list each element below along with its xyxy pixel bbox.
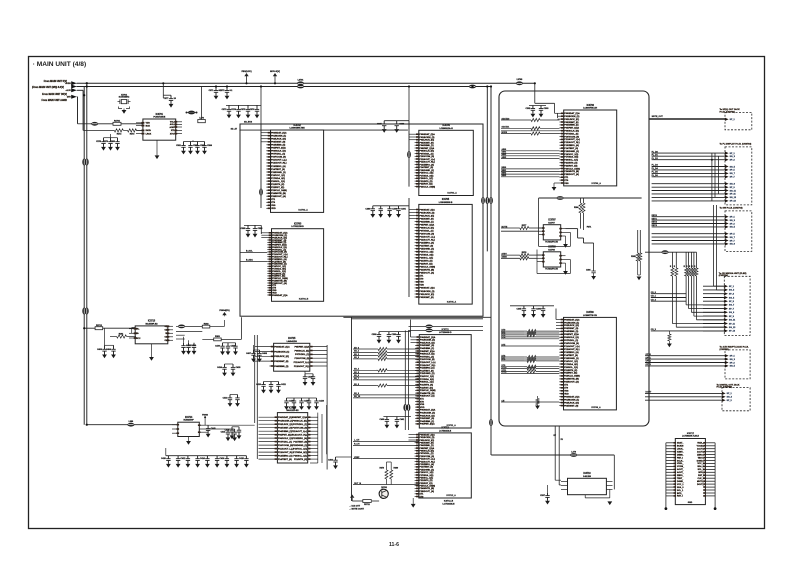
svg-text:P10/VCOM_(0): P10/VCOM_(0): [419, 456, 434, 458]
resistor R3701 box: [113, 122, 121, 125]
svg-text:RST_I: RST_I: [677, 496, 683, 498]
svg-text:P02/LRCK_I(1): P02/LRCK_I(1): [271, 139, 286, 141]
wire top bus VDD line: [77, 82, 535, 84]
svg-text:XSMT_: XSMT_: [677, 452, 685, 454]
power flag F3905: [350, 495, 354, 498]
connector CN3705: [725, 350, 750, 379]
ground under U3701: [156, 140, 158, 155]
wire middle block outline: [240, 124, 483, 316]
svg-text:MUTE: MUTE: [502, 226, 508, 228]
svg-text:F3906: F3906: [202, 415, 209, 417]
ferrite L101 on left rail: [82, 159, 86, 166]
svg-text:P.C.B. (CN3701): P.C.B. (CN3701): [720, 111, 736, 113]
capacitor C3724: [532, 106, 534, 109]
svg-text:SD_6: SD_6: [354, 375, 360, 377]
op-amp U3702 DAC: [271, 130, 324, 212]
svg-text:SD_10: SD_10: [354, 396, 361, 398]
svg-text:P24/MUTE_(B): P24/MUTE_(B): [564, 378, 579, 381]
svg-text:LC89091JA-H: LC89091JA-H: [439, 127, 453, 130]
svg-text:P04/DEM0_(1): P04/DEM0_(1): [271, 144, 285, 147]
op-amp U3701: [143, 119, 176, 140]
svg-text:DOUT_: DOUT_: [697, 484, 705, 486]
svg-text:VSS: VSS: [564, 391, 569, 393]
wire hlines ferrite pair: [409, 325, 484, 327]
svg-text:P15/DGND_(1): P15/DGND_(1): [420, 373, 435, 375]
svg-text:OPT2: OPT2: [646, 361, 652, 363]
svg-text:P03/XSMT_(0): P03/XSMT_(0): [419, 218, 433, 220]
svg-text:P01/BCKIN_(1): P01/BCKIN_(1): [419, 437, 434, 439]
wire to CN3701: [649, 118, 725, 120]
svg-text:+3.3V: +3.3V: [66, 90, 72, 92]
resistor R3705: [531, 127, 540, 130]
svg-text:IC3712_A: IC3712_A: [446, 494, 456, 497]
svg-text:P10/VCOM_(0): P10/VCOM_(0): [564, 136, 579, 138]
wire top bus second line: [77, 86, 492, 88]
svg-text:P24/MUTE_(B): P24/MUTE_(B): [419, 269, 434, 272]
svg-text:P07/VDDL_(1): P07/VDDL_(1): [278, 441, 292, 443]
svg-text:SP_13: SP_13: [730, 201, 737, 203]
op-amp U3713: [135, 326, 168, 344]
svg-text:P03/XSMT_(0): P03/XSMT_(0): [419, 443, 433, 445]
svg-text:P03/XSMT_(0): P03/XSMT_(0): [278, 428, 292, 430]
svg-text:P14/TEST_(0): P14/TEST_(0): [419, 245, 433, 248]
capacitor C3710: [117, 138, 119, 142]
capacitor C3720 rail: [373, 205, 409, 207]
power flag F3702: [274, 76, 276, 83]
svg-text:PCM1748KE: PCM1748KE: [153, 116, 166, 119]
ferrite L3705 cluster: [188, 111, 195, 115]
capacitor C3724 rail: [529, 105, 546, 107]
capacitor bank C3744 row: [167, 456, 169, 459]
svg-text:P01/BCKIN_(1): P01/BCKIN_(1): [564, 400, 579, 402]
wire row4 bend: [76, 96, 79, 98]
svg-text:P01/BCKIN_(1): P01/BCKIN_(1): [420, 340, 435, 342]
svg-text:P20/SCL_1(1): P20/SCL_1(1): [564, 367, 578, 369]
svg-text:INT0_: INT0_: [698, 472, 704, 474]
svg-text:P25/DOUT_(A): P25/DOUT_(A): [564, 381, 579, 384]
svg-text:P02/LRCK_I(1): P02/LRCK_I(1): [419, 294, 434, 296]
capacitor C3725: [540, 106, 542, 109]
capacitor C3727 rail: [510, 305, 554, 307]
wire drop x261: [260, 87, 262, 125]
wire rail U3709: [555, 309, 557, 320]
svg-text:P02/LRCK_I(1): P02/LRCK_I(1): [419, 440, 434, 442]
svg-text:IC3702: IC3702: [293, 125, 301, 127]
svg-text:SG_7: SG_7: [730, 237, 736, 239]
svg-text:P00/SDAT_(1)A: P00/SDAT_(1)A: [271, 132, 287, 135]
svg-text:R3711: R3711: [364, 504, 371, 506]
svg-text:FL_D0: FL_D0: [652, 151, 659, 153]
svg-text:IC3707: IC3707: [548, 220, 556, 222]
svg-text:P22/RST_I(1): P22/RST_I(1): [271, 187, 284, 189]
ground under U3706: [553, 183, 555, 187]
node junction CN3702: [711, 159, 713, 161]
svg-text:R_CH: R_CH: [354, 444, 360, 446]
svg-text:SP_7: SP_7: [730, 177, 736, 179]
node junction dot on bus: [86, 82, 88, 84]
svg-text:OPT0: OPT0: [646, 354, 652, 356]
svg-text:P07/VDDL_(1): P07/VDDL_(1): [419, 453, 433, 455]
capacitor C3718: [383, 121, 385, 124]
svg-text:VCC: VCC: [136, 338, 141, 340]
svg-text:LC89075W-XH: LC89075W-XH: [583, 108, 597, 110]
resistor bank RB3701: [671, 268, 674, 276]
svg-text:P25/DOUT_(A): P25/DOUT_(A): [271, 195, 286, 198]
svg-text:SP_5: SP_5: [729, 301, 735, 303]
svg-text:16.9344MHz: 16.9344MHz: [119, 96, 130, 99]
svg-text:SG_5: SG_5: [730, 366, 736, 368]
svg-text:LRCK: LRCK: [146, 133, 152, 135]
svg-text:P03/XSMT_(0): P03/XSMT_(0): [420, 418, 434, 420]
svg-text:IC3705_A: IC3705_A: [447, 300, 457, 303]
svg-text:P21/INT0_(X): P21/INT0_(X): [420, 385, 433, 387]
capacitor C3712: [190, 142, 192, 146]
svg-text:P14/TEST_(0): P14/TEST_(0): [420, 369, 434, 372]
svg-text:SP_7: SP_7: [729, 308, 735, 310]
svg-text:BA3121F-E2: BA3121F-E2: [287, 409, 300, 412]
wire B_SDA stub: [241, 260, 268, 262]
svg-text:VDDL_: VDDL_: [677, 463, 684, 465]
transistor Q3701: [379, 489, 388, 498]
svg-text:P05/FMT_I(1)A: P05/FMT_I(1)A: [564, 333, 579, 336]
svg-text:LC893035W-B: LC893035W-B: [439, 202, 453, 204]
svg-text:DGND_: DGND_: [697, 460, 705, 462]
svg-text:IC3713: IC3713: [148, 321, 156, 323]
svg-text:P25/DOUT_(A): P25/DOUT_(A): [564, 173, 579, 176]
ferrite L3721 on U3704 rail: [407, 151, 411, 158]
svg-text:IC3703: IC3703: [294, 224, 302, 226]
inductor L3706 box: [198, 120, 206, 123]
svg-text:SG_3: SG_3: [730, 359, 736, 361]
svg-text:LC89058W-TBE: LC89058W-TBE: [290, 128, 306, 130]
ferrite L3712: [570, 453, 577, 457]
svg-text:SD_8: SD_8: [354, 384, 360, 386]
svg-text:P01/BCKIN_(1): P01/BCKIN_(1): [564, 322, 579, 324]
wire hline y455: [491, 454, 614, 456]
svg-text:SG_9: SG_9: [730, 244, 736, 246]
svg-text:AOUT_: AOUT_: [697, 451, 705, 454]
resistor R3712 box: [95, 327, 103, 330]
svg-text:CLK_1: CLK_1: [697, 478, 704, 480]
svg-text:From MAIN UNIT AGND: From MAIN UNIT AGND: [41, 99, 67, 102]
svg-text:SD_0: SD_0: [354, 347, 360, 349]
resistor R3713: [117, 335, 127, 338]
border frame: [29, 57, 765, 529]
svg-text:P16/VCC_1(1): P16/VCC_1(1): [564, 154, 578, 156]
wire left rows U3712: [353, 440, 419, 442]
wire input rows group3: [501, 150, 560, 152]
svg-text:KEY1: KEY1: [652, 218, 658, 220]
op-amp U3710 regulator: [568, 478, 607, 494]
svg-text:P00/SDAT_(1)A: P00/SDAT_(1)A: [419, 208, 435, 211]
svg-text:IC3708: IC3708: [548, 247, 556, 249]
svg-text:P17/SDA_0(1): P17/SDA_0(1): [271, 177, 285, 180]
svg-text:P05/FMT_I(1)A: P05/FMT_I(1)A: [564, 127, 579, 130]
svg-text:OPT1: OPT1: [646, 357, 652, 359]
svg-text:P02/LRCK_I(1): P02/LRCK_I(1): [564, 119, 579, 121]
svg-text:P11/AOUT_L(+): P11/AOUT_L(+): [419, 236, 435, 239]
svg-text:P13/ZERO_(A): P13/ZERO_(A): [564, 351, 579, 354]
svg-text:P13/ZERO_(A): P13/ZERO_(A): [278, 454, 293, 457]
op-amp U3709: [564, 317, 617, 410]
wire drop to C3707: [162, 83, 164, 95]
svg-text:P07/VDDL_(1): P07/VDDL_(1): [271, 154, 285, 156]
capacitor C3701: [215, 87, 217, 91]
resistor R3715 box: [214, 338, 222, 341]
svg-text:P03/XSMT_(0): P03/XSMT_(0): [564, 122, 578, 124]
svg-text:P02/LRCK_I(1): P02/LRCK_I(1): [419, 140, 434, 142]
ferrite L3708 on rail: [489, 197, 493, 204]
svg-text:SG_3: SG_3: [730, 156, 736, 158]
resistor R3710b vertical: [583, 198, 585, 203]
svg-text:(CN3705): (CN3705): [720, 349, 729, 351]
svg-text:P14/TEST_(0): P14/TEST_(0): [564, 354, 578, 357]
capacitor C3707: [170, 95, 172, 99]
svg-text:SP_3: SP_3: [730, 223, 736, 225]
svg-text:(From MAIN UNIT (3/8)) 3.3(V): (From MAIN UNIT (3/8)) 3.3(V): [32, 86, 64, 89]
svg-text:P10/VCOM_(0): P10/VCOM_(0): [295, 358, 310, 360]
svg-text:LA6541DH: LA6541DH: [287, 340, 298, 343]
svg-text:SP_3: SP_3: [730, 362, 736, 364]
wire staircase from U3707 output: [566, 228, 578, 230]
svg-text:GND: GND: [688, 502, 693, 504]
wire into U3701 with resistors: [83, 129, 114, 131]
svg-text:P20/SCL_1(1): P20/SCL_1(1): [564, 160, 578, 162]
svg-text:B_SCL: B_SCL: [246, 250, 253, 252]
svg-text:P11/AOUT_L(+): P11/AOUT_L(+): [294, 361, 310, 364]
svg-text:SG_11: SG_11: [729, 320, 736, 322]
left vertical rail A: [83, 87, 85, 425]
input arrow row4: [71, 95, 77, 99]
svg-text:P05/FMT_I(1)A: P05/FMT_I(1)A: [292, 416, 307, 419]
svg-text:P10/VCOM_(0): P10/VCOM_(0): [419, 156, 434, 158]
svg-text:P01/BCKIN_(1): P01/BCKIN_(1): [420, 413, 435, 415]
svg-text:IC3704: IC3704: [442, 124, 450, 127]
svg-text:CD_3: CD_3: [651, 329, 657, 331]
wire inputs to U3707: [501, 227, 520, 229]
svg-text:To SW P.C.B. (CN3703): To SW P.C.B. (CN3703): [720, 208, 743, 210]
capacitor C3747 five: [286, 398, 288, 401]
svg-text:INT0_: INT0_: [677, 493, 683, 495]
svg-text:P13/ZERO_(A): P13/ZERO_(A): [271, 165, 286, 168]
svg-text:FL_D1: FL_D1: [652, 154, 659, 156]
svg-text:P10/VCOM_(0): P10/VCOM_(0): [420, 359, 435, 361]
resistor R3708: [520, 254, 529, 257]
svg-text:SCL_1: SCL_1: [698, 469, 705, 471]
ferrite L3714: [426, 325, 433, 329]
svg-text:OPT3: OPT3: [646, 364, 652, 366]
op-amp U3703: [272, 229, 324, 302]
svg-text:SG_9: SG_9: [729, 312, 735, 314]
svg-text:IC3715: IC3715: [288, 338, 296, 340]
svg-text:IC3707: IC3707: [548, 222, 555, 224]
svg-text:RST_I: RST_I: [698, 475, 704, 477]
svg-text:IC3702_A: IC3702_A: [298, 209, 308, 212]
capacitor C3728: [533, 306, 535, 309]
svg-text:P06/SCLK_I(1): P06/SCLK_I(1): [295, 350, 310, 352]
capacitor C3706: [256, 105, 258, 109]
svg-text:VCC_1: VCC_1: [697, 463, 704, 465]
svg-text:P10/VCOM_(0): P10/VCOM_(0): [271, 157, 286, 159]
svg-text:XTO: XTO: [170, 133, 175, 135]
ferrite L3704: [91, 122, 98, 126]
svg-text:SG_11: SG_11: [730, 190, 737, 192]
svg-text:P06/SCLK_I(1): P06/SCLK_I(1): [564, 337, 579, 339]
ferrite L3703 on bus: [516, 81, 523, 85]
svg-text:P15/DGND_(1): P15/DGND_(1): [419, 249, 434, 251]
capacitor C3743: [259, 350, 261, 353]
svg-text:IC3716: IC3716: [289, 407, 297, 409]
power flag F3701: [246, 76, 248, 83]
svg-text:XTI: XTI: [171, 130, 175, 132]
svg-text:R377: R377: [522, 225, 527, 227]
svg-text:P06/SCLK_I(1): P06/SCLK_I(1): [271, 151, 286, 153]
svg-text:P13/ZERO_(A): P13/ZERO_(A): [419, 163, 434, 166]
svg-text:AOUT_: AOUT_: [697, 448, 705, 451]
svg-text:P07/VDDL_(1): P07/VDDL_(1): [420, 356, 434, 358]
svg-text:P06/SCLK_I(1): P06/SCLK_I(1): [419, 227, 434, 229]
svg-text:SG_13: SG_13: [730, 197, 737, 199]
svg-text:P17/SDA_0(1): P17/SDA_0(1): [564, 363, 578, 366]
wire loop around U3708: [536, 250, 538, 274]
ferrite L3723 on rail: [407, 404, 411, 411]
wire stub U3710: [586, 495, 588, 498]
svg-text:VSS: VSS: [420, 404, 425, 406]
svg-text:P12/AOUT_R(-): P12/AOUT_R(-): [564, 348, 580, 351]
svg-text:IC3714: IC3714: [185, 416, 193, 419]
svg-text:P02/LRCK_I(1): P02/LRCK_I(1): [564, 402, 579, 404]
capacitor C3732 rail: [379, 331, 411, 333]
wire rail x491: [490, 87, 492, 456]
capacitor C3745 trio: [263, 382, 265, 385]
svg-text:P05/FMT_I(1)A: P05/FMT_I(1)A: [419, 223, 434, 226]
svg-text:R372: R372: [117, 134, 122, 136]
svg-text:P20/SCL_1(1): P20/SCL_1(1): [420, 382, 434, 384]
svg-text:P23/CLK_16(M): P23/CLK_16(M): [271, 190, 287, 192]
svg-text:P01/BCKIN_(1): P01/BCKIN_(1): [419, 212, 434, 214]
wire long rows CN3704: [651, 293, 686, 295]
svg-text:SG_7: SG_7: [730, 173, 736, 175]
svg-text:VDDL_: VDDL_: [697, 443, 704, 445]
wire rounded block outline: [499, 91, 649, 426]
svg-text:P21/INT0_(X): P21/INT0_(X): [294, 459, 307, 461]
capacitor C3703: [228, 105, 230, 109]
svg-text:P03/XSMT_(0): P03/XSMT_(0): [564, 328, 578, 330]
svg-text:SNS0: SNS0: [502, 257, 508, 259]
svg-text:P22/RST_I(1): P22/RST_I(1): [419, 184, 432, 186]
svg-text:SG_5: SG_5: [730, 227, 736, 229]
svg-text:NJM2100F: NJM2100F: [184, 420, 195, 422]
svg-text:P15/DGND_(1): P15/DGND_(1): [564, 358, 579, 360]
svg-text:CD_0: CD_0: [651, 292, 657, 294]
capacitor C3709: [110, 138, 112, 142]
ground under U3707: [565, 236, 567, 244]
svg-text:LC72366W-D: LC72366W-D: [439, 332, 452, 334]
svg-text:P21/INT0_(X): P21/INT0_(X): [419, 261, 432, 263]
input arrow row2: [71, 85, 77, 89]
svg-text:IC3704_A: IC3704_A: [447, 192, 457, 195]
resistor R3707: [520, 226, 529, 229]
svg-text:From MAIN UNIT D5(V): From MAIN UNIT D5(V): [42, 93, 67, 96]
ground under U3714: [188, 437, 190, 442]
wire hline into U3713: [84, 327, 135, 329]
svg-text:SG_7: SG_7: [729, 305, 735, 307]
svg-text:R373: R373: [130, 134, 135, 136]
svg-text:P.C.B. (CN3706): P.C.B. (CN3706): [717, 387, 733, 389]
svg-text:P02/LRCK_I(1): P02/LRCK_I(1): [564, 325, 579, 327]
svg-text:P07/VDDL_(1): P07/VDDL_(1): [564, 340, 578, 342]
svg-text:P13/ZERO_(A): P13/ZERO_(A): [293, 437, 308, 440]
svg-text:Q3701: Q3701: [381, 487, 388, 489]
svg-text:SP_1: SP_1: [729, 286, 735, 288]
svg-text:SP_11: SP_11: [730, 194, 737, 196]
svg-text:BA4558F-E2: BA4558F-E2: [146, 322, 159, 325]
op-amp U3712: [419, 433, 472, 498]
wire input row SDATA0: [501, 119, 531, 121]
svg-text:SDA_0: SDA_0: [677, 486, 684, 489]
input arrow row3: [71, 88, 77, 92]
svg-text:P10/VCOM_(0): P10/VCOM_(0): [419, 233, 434, 235]
svg-text:P13/ZERO_(A): P13/ZERO_(A): [420, 367, 435, 370]
svg-text:SP_1: SP_1: [727, 393, 733, 395]
svg-text:P23/CLK_16(M): P23/CLK_16(M): [564, 168, 580, 170]
svg-text:P17/SDA_0(1): P17/SDA_0(1): [564, 156, 578, 159]
svg-text:P23/CLK_16(M): P23/CLK_16(M): [420, 390, 436, 392]
ferrite L3717: [127, 423, 134, 427]
svg-text:L3705: L3705: [517, 79, 524, 81]
ground right pair: [637, 277, 642, 281]
capacitor C3713: [197, 142, 199, 146]
svg-text:P10/VCOM_(0): P10/VCOM_(0): [564, 343, 579, 345]
svg-text:TEST_: TEST_: [698, 457, 705, 459]
svg-text:VDD: VDD: [146, 123, 151, 125]
svg-text:P06/SCLK_I(1): P06/SCLK_I(1): [278, 438, 293, 440]
connector CN3703: [725, 211, 752, 252]
svg-text:VSS: VSS: [419, 282, 424, 284]
svg-text:IC3705: IC3705: [442, 199, 450, 201]
svg-text:P03/XSMT_(0): P03/XSMT_(0): [274, 361, 288, 363]
svg-text:P04/DEM0_(1): P04/DEM0_(1): [564, 330, 578, 333]
ground under U3708: [565, 263, 567, 271]
resistor R3704: [531, 118, 540, 121]
svg-text:P12/AOUT_R(-): P12/AOUT_R(-): [292, 434, 308, 437]
svg-text:SP_7: SP_7: [730, 240, 736, 242]
svg-text:P05/FMT_I(1)A: P05/FMT_I(1)A: [419, 447, 434, 450]
capacitor C3738: [104, 345, 106, 349]
svg-text:P12/AOUT_R(-): P12/AOUT_R(-): [420, 364, 436, 367]
svg-text:IC3709_A: IC3709_A: [591, 406, 601, 409]
svg-text:ZERO_: ZERO_: [677, 475, 685, 477]
svg-text:P14/TEST_(0): P14/TEST_(0): [271, 168, 285, 171]
svg-text:P12/AOUT_R(-): P12/AOUT_R(-): [278, 451, 294, 454]
svg-text:P24/MUTE_(B): P24/MUTE_(B): [420, 392, 435, 395]
svg-text:LC89077W-CH: LC89077W-CH: [583, 315, 597, 317]
svg-text:P02/LRCK_I(1): P02/LRCK_I(1): [278, 424, 293, 426]
svg-text:P25/DOUT_(A): P25/DOUT_(A): [420, 395, 435, 398]
svg-text:P13/ZERO_(A): P13/ZERO_(A): [419, 242, 434, 245]
svg-text:P16/VCC_1(1): P16/VCC_1(1): [420, 376, 434, 378]
svg-text:F3904(5V): F3904(5V): [219, 309, 230, 312]
ground resistor under U3709: [536, 399, 539, 405]
ferrite L102b on left rail: [82, 308, 86, 315]
svg-text:AVDD: AVDD: [65, 82, 71, 85]
svg-text:P11/AOUT_L(+): P11/AOUT_L(+): [271, 159, 287, 162]
svg-text:P00/SDAT_(1)A: P00/SDAT_(1)A: [274, 345, 290, 348]
ground under U3710: [585, 497, 610, 499]
svg-text:P21/INT0_(X): P21/INT0_(X): [564, 370, 577, 372]
svg-text:SP_9: SP_9: [729, 316, 735, 318]
wire input rows group4: [501, 168, 560, 170]
